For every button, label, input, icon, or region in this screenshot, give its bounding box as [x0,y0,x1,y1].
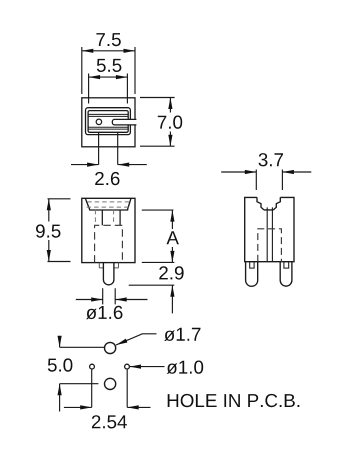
text ø1.6 [86,306,122,319]
label dia 1.7 leader [116,334,157,345]
dimension 7.5 [82,47,135,94]
front pin [103,263,114,285]
text A [167,231,179,244]
text 2.6 [95,172,119,185]
text 2.54 [92,415,127,428]
text HOLE IN P.C.B. [168,394,300,407]
text 7.5 [96,33,120,46]
text ø1.7 [164,328,200,341]
dimension dia 1.6 [76,288,148,304]
front funnel slants and bottom [85,198,131,210]
text 5.0 [48,358,73,371]
text 5.5 [97,59,122,72]
top view contact circle [96,119,102,125]
dimension 7.0 [140,98,175,147]
hole big top [105,342,116,353]
front contact hidden verticals [95,210,113,223]
side body outline [245,197,294,261]
front contact solid verticals [102,210,120,225]
label dia 1.0 leader [130,366,165,368]
top view slot outline [112,119,136,125]
hole big bottom [105,378,116,389]
hole small left [90,364,95,369]
dimension 2.54 [64,369,151,407]
side notch [257,197,280,210]
top view pin lead lines [99,132,118,165]
side legs [246,262,292,287]
dimension 3.7 [221,170,311,191]
text 9.5 [36,224,61,237]
front body outline [82,198,135,262]
dimension 5.5 [89,74,128,104]
dimension 5.0 [60,337,105,412]
front hidden hooks below body [99,263,118,268]
dimension 9.5 [48,199,71,262]
dimension 2.6 [71,164,147,166]
dimension A [142,210,175,262]
front hidden cavity box [95,225,123,262]
top view inner frame inner [88,111,128,133]
top view slot erase [113,120,136,125]
text 3.7 [259,153,284,166]
side slot lines [267,207,272,261]
text 2.9 [159,266,183,279]
text ø1.0 [167,361,204,374]
hole small right [125,364,130,369]
side hidden cavity box [258,229,282,262]
top view outer square [82,98,135,147]
text 7.0 [158,116,182,129]
top view bevel band lines [88,114,128,129]
side leg barbs [250,262,254,268]
top view inner frame outer [86,108,131,135]
front funnel hidden lines [87,202,130,207]
